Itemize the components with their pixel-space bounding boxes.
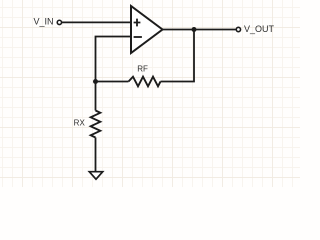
resistor RF (zigzag) xyxy=(129,77,161,87)
op-amp + input symbol xyxy=(134,19,141,27)
ground symbol xyxy=(89,172,102,180)
op-amp - input symbol xyxy=(134,36,142,38)
wire: feedback junction down to RX top lead xyxy=(95,82,97,111)
wire: feedback junction to RF left lead xyxy=(96,81,129,83)
svg-text:RX: RX xyxy=(74,119,86,128)
wire: RF right lead to output branch corner xyxy=(161,30,195,82)
svg-text:V_IN: V_IN xyxy=(33,17,53,27)
svg-text:RF: RF xyxy=(137,64,148,73)
op-amp U1 (triangle body) xyxy=(131,6,163,53)
svg-text:V_OUT: V_OUT xyxy=(244,24,275,34)
terminal V_IN (open circle) xyxy=(57,20,61,24)
terminal V_OUT (open circle) xyxy=(236,27,240,31)
wire: op-amp output to V_OUT terminal xyxy=(163,29,236,31)
wire: V_IN terminal to op-amp + input xyxy=(62,21,131,23)
junction dot at output node xyxy=(192,27,197,32)
junction dot at feedback node xyxy=(93,79,98,84)
resistor RX (vertical zigzag) xyxy=(91,111,101,138)
wire: RX bottom lead to ground xyxy=(95,138,97,175)
wire: op-amp - input to feedback node xyxy=(96,37,132,82)
